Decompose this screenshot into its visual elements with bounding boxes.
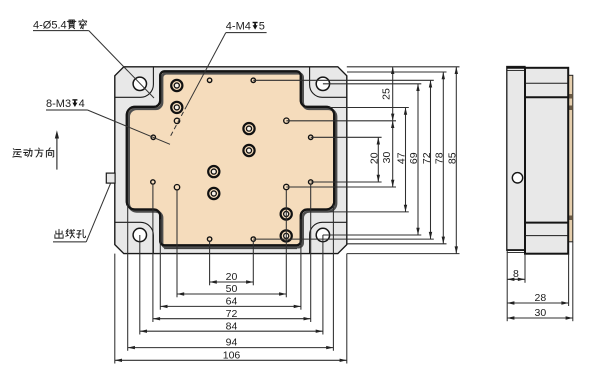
M3 tapped holes 8-M3: [151, 78, 313, 241]
top moving plate 94x78 (tan) with corner notches and edge shadow: [127, 71, 336, 248]
bottom dimension stack: extension lines and dim lines 20,50,64,72,84,94,106: [115, 185, 347, 364]
right dimension stack: extension lines and dim lines 20,25,30,47,69,72,78,85: [253, 67, 459, 254]
svg-text:47: 47: [396, 152, 408, 164]
svg-text:20: 20: [368, 152, 380, 164]
main body: [525, 68, 568, 254]
svg-text:64: 64: [226, 296, 238, 308]
side view dimensions 8,28,30: [507, 242, 573, 321]
svg-text:106: 106: [223, 349, 241, 361]
svg-text:30: 30: [381, 152, 393, 164]
svg-text:78: 78: [434, 152, 446, 164]
corner tab outline BL: [115, 222, 154, 253]
dim lines: [210, 281, 254, 283]
svg-text:4-M4: 4-M4: [226, 21, 251, 33]
corner tab outline BR: [310, 222, 347, 253]
through hole D5.4 bottom-right: [316, 228, 329, 241]
svg-text:4-Ø5.4: 4-Ø5.4: [33, 19, 67, 31]
svg-text:94: 94: [226, 337, 238, 349]
svg-text:85: 85: [446, 152, 458, 164]
wire outlet tab on left edge of base: [106, 173, 115, 183]
through hole D5.4 top-left: [133, 77, 146, 90]
tan strip (moving plate edge): [568, 75, 573, 242]
svg-text:4: 4: [79, 98, 85, 110]
svg-text:8: 8: [513, 268, 519, 280]
through hole D5.4 top-right: [316, 77, 329, 90]
svg-text:72: 72: [421, 152, 433, 164]
hole on skirt: [512, 173, 522, 183]
label 8-M3 depth 4 (leader): [46, 98, 170, 144]
label 4-M4 depth 5 (dashed leader): [170, 21, 267, 138]
svg-text:8-M3: 8-M3: [46, 98, 71, 110]
svg-text:69: 69: [408, 152, 420, 164]
svg-text:72: 72: [226, 308, 238, 320]
label wire outlet hole (leader): [53, 184, 111, 242]
base plate 106x85 with chamfered corners: [115, 67, 347, 254]
skirt (8mm side plate): [507, 67, 525, 251]
counterbore hole group (8 holes, outer rings): [171, 80, 292, 242]
label 4-D5.4 through (leader to top-left hole): [33, 19, 154, 98]
svg-text:84: 84: [226, 320, 238, 332]
label motion direction with up arrow: [13, 130, 59, 169]
svg-text:5: 5: [259, 21, 265, 33]
dim lines: [377, 137, 379, 182]
svg-text:28: 28: [535, 292, 547, 304]
svg-text:30: 30: [535, 307, 547, 319]
side view of stage: [507, 67, 573, 254]
svg-text:50: 50: [226, 283, 238, 295]
corner tab outline TL: [115, 67, 154, 98]
svg-text:20: 20: [226, 271, 238, 283]
svg-text:25: 25: [381, 88, 393, 100]
corner tab outline TR: [310, 67, 347, 98]
through hole D5.4 bottom-left: [133, 228, 146, 241]
M4 tapped holes 4-M4: [174, 118, 289, 190]
